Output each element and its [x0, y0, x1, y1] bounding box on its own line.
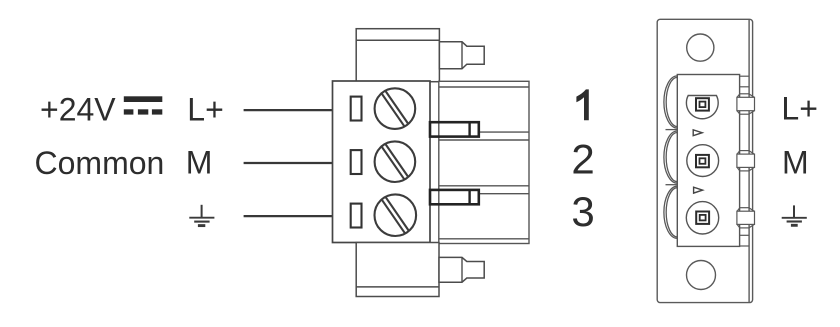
- wire slot 3: [351, 204, 362, 228]
- plug top pin: [439, 42, 484, 69]
- screw 3: [375, 194, 417, 236]
- svg-text:M: M: [782, 145, 809, 181]
- svg-text:Common: Common: [35, 145, 165, 181]
- svg-text:+24V: +24V: [40, 92, 116, 128]
- latch 2: [430, 190, 479, 204]
- socket pin opening 1 (D shape): [686, 96, 718, 119]
- socket mounting plate: [657, 19, 752, 302]
- socket inner body: [677, 75, 739, 247]
- plug top body: [356, 29, 439, 82]
- socket right rail: [737, 76, 755, 246]
- pin contact 3: [696, 212, 709, 224]
- svg-text:2: 2: [571, 136, 594, 183]
- ground symbol left: [189, 205, 214, 226]
- wire slot 1: [351, 97, 362, 121]
- keying triangle 2: [694, 187, 703, 193]
- plug right housing: [439, 81, 529, 243]
- socket pin opening 3: [686, 202, 718, 234]
- latch 1: [430, 122, 479, 136]
- wire M: [244, 162, 333, 164]
- pin contact 2: [696, 155, 709, 167]
- wire slot 2: [351, 150, 362, 174]
- plug bottom pin: [439, 257, 484, 282]
- socket top hole: [687, 34, 714, 61]
- keying triangle 1: [693, 130, 702, 136]
- DC symbol: [124, 96, 163, 114]
- socket side crescent 1: [664, 76, 677, 130]
- wire ground: [244, 215, 333, 217]
- socket pin opening 2: [687, 145, 719, 177]
- plug main block: [333, 81, 431, 243]
- wire L+: [244, 109, 333, 111]
- pin number 1: [576, 89, 588, 120]
- svg-text:L+: L+: [781, 91, 817, 127]
- screw 1: [375, 88, 416, 129]
- svg-text:M: M: [186, 145, 213, 181]
- svg-text:L+: L+: [187, 91, 223, 127]
- svg-text:3: 3: [571, 188, 594, 235]
- pin contact 1: [696, 98, 709, 110]
- screw 2: [375, 141, 416, 182]
- plug bottom body: [356, 243, 439, 297]
- socket side crescent 3: [664, 186, 677, 238]
- ground symbol right: [782, 205, 807, 225]
- socket bottom hole: [687, 261, 716, 290]
- socket side crescent 2: [664, 131, 677, 185]
